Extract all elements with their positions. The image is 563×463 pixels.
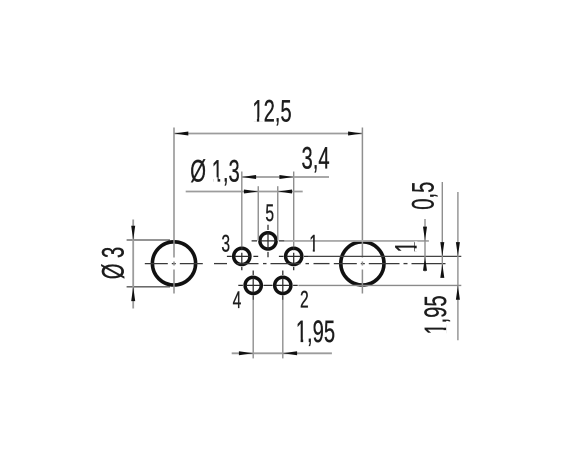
svg-text:1: 1 — [309, 231, 318, 258]
svg-text:1,95: 1,95 — [296, 314, 335, 349]
contact hole pin 3 — [234, 248, 250, 264]
extension line top tangent of left hole (for Ø3) — [127, 239, 170, 241]
extension line pin5 hole left edge (for Ø1,3) — [257, 186, 259, 241]
extension line pin1 row to the right — [309, 255, 462, 257]
extension line pin2 column down (for bottom 1,95) — [282, 300, 284, 359]
extension line pin5 hole right edge (for Ø1,3) — [277, 186, 279, 241]
arrow dim 0,5 pointing up — [440, 264, 444, 278]
arrow dim 0,5 pointing down — [440, 242, 444, 256]
svg-text:4: 4 — [233, 287, 242, 314]
crosshair pin1 vertical — [293, 247, 295, 270]
arrow right 1,95 pointing up — [456, 285, 460, 299]
crosshair pin5 — [227, 225, 309, 300]
dimension line Ø1,3 — [186, 191, 303, 193]
extension line pin3 column (for 3,4) — [241, 172, 243, 247]
arrow Ø1,3 pointing right — [244, 190, 258, 194]
arrow bottom 1,95 pointing right — [239, 351, 253, 355]
mounting hole right (Ø3) — [341, 242, 384, 285]
arrow Ø3 pointing up — [131, 287, 135, 301]
arrow 12,5 right — [348, 132, 362, 136]
crosshair pin3 — [227, 255, 258, 257]
extension line pin2 row to the right — [298, 284, 461, 286]
centerline dash-dot through both mounting holes — [145, 263, 446, 265]
svg-text:Ø 3: Ø 3 — [95, 247, 130, 280]
white patches: remove foot serif of digit 1 glyphs (target uses DIN-style 1) — [213, 117, 446, 343]
svg-text:2: 2 — [300, 287, 309, 314]
svg-text:12,5: 12,5 — [252, 93, 291, 128]
arrow 12,5 left — [174, 132, 188, 136]
extension line pin1 column (for 3,4) — [293, 172, 295, 247]
contact hole pin 4 — [245, 277, 261, 293]
crosshair pin4 — [238, 284, 268, 286]
dimension line 3,4 — [242, 176, 329, 178]
contact hole pin 5 — [260, 233, 276, 249]
arrow dim 1 pointing down — [423, 227, 427, 241]
arrow Ø3 pointing down — [131, 226, 135, 240]
dimension line right 1,95 (vertical, x=457.9) — [457, 192, 459, 340]
dimension line 12,5 — [174, 133, 362, 135]
svg-text:5: 5 — [265, 200, 274, 227]
arrow bottom 1,95 pointing left — [283, 351, 297, 355]
extension line pin5 row to the right (for dim 1) — [284, 240, 429, 242]
arrow right 1,95 pointing down — [456, 242, 460, 256]
mounting hole left (Ø3) — [152, 242, 195, 285]
extension line pin4 column down (for bottom 1,95) — [252, 300, 254, 359]
contact hole pin 2 — [275, 277, 291, 293]
arrow dim 1 pointing up — [423, 256, 427, 270]
arrow Ø1,3 pointing left — [278, 190, 292, 194]
vertical center/extension line of left mounting hole — [173, 128, 175, 294]
dimension line bottom 1,95 — [232, 352, 332, 354]
arrow 3,4 right — [279, 175, 293, 179]
svg-text:1,95: 1,95 — [418, 295, 453, 334]
arrow 3,4 left — [242, 175, 256, 179]
extension line bottom tangent of left hole (for Ø3) — [127, 286, 170, 288]
crosshair pin1 horizontal left of extension — [279, 255, 309, 257]
svg-text:3,4: 3,4 — [302, 140, 330, 175]
svg-text:1: 1 — [389, 241, 424, 252]
crosshair pin2 — [268, 284, 298, 286]
dimension line 0,5 (vertical, x=442.3) — [441, 182, 443, 277]
vertical center/extension line of right mounting hole — [361, 128, 363, 294]
svg-text:0,5: 0,5 — [406, 182, 441, 210]
svg-text:Ø 1,3: Ø 1,3 — [190, 153, 239, 188]
dimension line Ø3 vertical — [132, 220, 134, 309]
contact hole pin 1 — [286, 248, 302, 264]
dimension line 1 (vertical, x=425) — [424, 219, 426, 272]
svg-text:3: 3 — [221, 230, 230, 257]
